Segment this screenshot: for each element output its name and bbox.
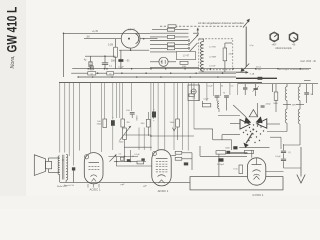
- wire IF1 mid join: [286, 100, 288, 109]
- paper shading left edge: [0, 0, 26, 209]
- svg-text:(2): (2): [288, 152, 291, 154]
- output tube UCL11 envelope: [84, 153, 103, 184]
- mains heavy line: [236, 77, 277, 79]
- svg-text:Nora,: Nora,: [10, 55, 16, 68]
- svg-text:2M: 2M: [127, 122, 130, 124]
- wire staircase h3: [222, 134, 240, 136]
- bus junction dots B: [97, 72, 99, 74]
- wafer switch wedge top-left black: [244, 117, 251, 124]
- wire transformer bottom left: [59, 175, 61, 183]
- cathode bus: [60, 181, 190, 183]
- wafer switch cap 220: [261, 105, 265, 107]
- wire mid h2 dn: [124, 146, 152, 148]
- antenna coil winding KW: [201, 42, 204, 52]
- tube V2 grid cap circle: [152, 152, 156, 156]
- wafer switch right wire: [267, 123, 280, 125]
- band switch row 2: [150, 32, 189, 34]
- wire indicator bottom stub: [130, 48, 132, 50]
- wire shelf y56: [85, 55, 116, 57]
- svg-text:AF/DC 1: AF/DC 1: [158, 189, 169, 193]
- junction right of indicator: [143, 38, 145, 40]
- wafer switch left wire: [230, 123, 240, 125]
- wire vertical drop 3: [104, 82, 106, 119]
- dial lamp box: [188, 85, 200, 101]
- wire IF2 mid join: [299, 100, 301, 109]
- tube V2 heater V: [159, 180, 165, 183]
- cap pair x227.4: [224, 95, 229, 97]
- band switch row 5: [150, 43, 189, 45]
- svg-text:2x0,1: 2x0,1: [256, 66, 262, 68]
- wire resistor bottom: [224, 61, 226, 72]
- tube V2 grids: [156, 161, 158, 163]
- loudspeaker coil box: [46, 161, 52, 168]
- wire vertical drop 12: [164, 82, 166, 150]
- wire vertical drop 14: [177, 82, 179, 119]
- IF tuning cap right: [304, 92, 309, 94]
- tube V2 cathode: [158, 175, 166, 177]
- transformer core lines: [62, 155, 64, 180]
- dashed aerial line: [160, 25, 243, 27]
- wire short x139: [138, 128, 140, 151]
- svg-text:L1 KW: L1 KW: [209, 47, 216, 49]
- svg-text:0,1μF: 0,1μF: [134, 154, 140, 156]
- wire left vertical 4: [73, 82, 75, 165]
- svg-text:2x50μF: 2x50μF: [217, 164, 225, 166]
- tuning knob left hexagon: [270, 32, 279, 42]
- row pill 3: [167, 43, 174, 46]
- wire horizontal below indicator: [119, 49, 149, 51]
- wire vertical drop 22: [229, 82, 231, 95]
- wire V3 top to switch: [251, 151, 253, 158]
- indicator tube target arc: [136, 34, 139, 44]
- switch contact small circle 3: [188, 47, 190, 49]
- potentiometer 50k diagonal: [123, 128, 127, 140]
- wire top horizontal to band switch: [64, 32, 151, 34]
- wire indicator right: [140, 38, 158, 40]
- svg-text:GW 410 L: GW 410 L: [4, 7, 20, 53]
- right of V2 wires: [171, 155, 176, 157]
- resistor below osc box: [180, 61, 188, 64]
- wire vertical drop 7: [122, 82, 124, 119]
- wafer switch lever: [246, 133, 252, 143]
- wire resistor 5000 bottom: [275, 100, 277, 112]
- band switch row 7: [150, 51, 189, 53]
- resistor in coil box: [223, 48, 227, 61]
- wire vertical drop 1: [90, 82, 92, 153]
- pill mid: [137, 161, 144, 164]
- wire branch x272: [272, 84, 274, 92]
- row pill 1: [167, 28, 174, 31]
- choke on bus A: [90, 65, 93, 67]
- switch contact small circle 2: [188, 44, 190, 46]
- antenna coil winding LW: [201, 61, 204, 71]
- tuning knob right pointer: [294, 37, 297, 40]
- trimmer arrow mid: [110, 156, 116, 162]
- bus line A y68.7: [72, 68, 311, 70]
- wire staircase h1: [194, 128, 213, 130]
- wafer switch contact dots: [247, 134, 248, 135]
- wire staircase h2: [213, 139, 232, 141]
- dark component on wire x73.6: [72, 167, 75, 170]
- wire drop continuation x122.7: [122, 127, 124, 130]
- dark cap right of pill: [226, 151, 230, 154]
- pill below switch: [245, 150, 254, 153]
- junction dot x150.9: [150, 135, 152, 137]
- wire vertical drop 18: [197, 82, 199, 101]
- svg-text:AC/DC 1: AC/DC 1: [89, 188, 100, 192]
- svg-text:μμF: μμF: [121, 184, 126, 186]
- dial lamp circle: [191, 89, 196, 94]
- ground arrow head: [297, 175, 305, 184]
- trimmer branch 2: [255, 84, 257, 88]
- wafer switch wedge top-right black: [256, 116, 263, 123]
- right of V2 pill 1: [175, 151, 182, 154]
- wire speaker top: [48, 158, 50, 161]
- wire arrow mains entry: [236, 71, 248, 73]
- tube V3 anode bar: [252, 164, 262, 166]
- wire top right stub: [304, 80, 311, 82]
- output transformer primary: [58, 156, 60, 175]
- wire resistor top: [224, 43, 226, 48]
- bus junction dots C: [92, 76, 94, 78]
- wire staircase v1: [193, 82, 195, 128]
- band switch row 4: [150, 40, 189, 42]
- wire speaker bottom: [48, 169, 50, 173]
- tube V1 pins: [87, 184, 89, 188]
- small box mid: [120, 157, 124, 160]
- bus line C y77: [78, 76, 236, 78]
- wire below coil box: [199, 71, 247, 73]
- wire cap stack: [283, 144, 285, 150]
- cap pair x217.9: [215, 95, 220, 97]
- band switch row 6: [150, 47, 189, 49]
- wire staircase v3: [231, 140, 233, 150]
- wire mid v3: [129, 150, 131, 162]
- dark cap mid: [127, 159, 131, 162]
- wire mid v1: [116, 157, 118, 167]
- cap stack right 1: [281, 150, 286, 152]
- power unit box: [190, 177, 283, 190]
- svg-text:5000: 5000: [111, 60, 117, 62]
- wire vertical drop 11: [157, 82, 159, 150]
- switch wiper diagonal 1: [190, 36, 198, 45]
- wire pot right segment: [151, 135, 194, 137]
- svg-text:Anschl. 50: Anschl. 50: [64, 184, 75, 187]
- svg-text:0,1μF: 0,1μF: [256, 69, 262, 71]
- capacitor row3: [130, 112, 135, 114]
- wire power h: [200, 155, 247, 157]
- wire vertical drop 5: [115, 82, 117, 118]
- wire left vertical 5: [79, 82, 81, 150]
- junction top-left: [63, 33, 65, 35]
- tuning knob right circle: [290, 33, 298, 41]
- junction below indicator: [130, 49, 132, 51]
- tuning knob left circle: [270, 33, 278, 41]
- wafer switch hub: [252, 129, 254, 131]
- rectifier tube UY11 envelope: [247, 158, 265, 185]
- resistor 0,1M vertical: [115, 39, 117, 48]
- antenna coil winding MW: [201, 51, 204, 61]
- wire vertical drop 13: [173, 82, 175, 150]
- wire below switch: [239, 147, 269, 149]
- svg-text:L3 LW: L3 LW: [209, 66, 216, 68]
- bus line B y73.2: [71, 72, 236, 74]
- pill power: [216, 151, 226, 154]
- wire mid h2: [114, 161, 146, 163]
- indicator tube cathode dot: [128, 38, 130, 40]
- wire vertical drop 2: [101, 82, 103, 152]
- wire left vertical 1: [59, 82, 61, 152]
- wire switch top connect: [218, 115, 240, 117]
- oscillator tube electrodes: [161, 60, 163, 64]
- IF2 primary winding: [299, 84, 301, 87]
- svg-text:0,1μF: 0,1μF: [207, 86, 213, 88]
- loudspeaker cone: [34, 155, 45, 176]
- mixer tube UCH11 envelope: [152, 150, 171, 186]
- junction dots mid: [116, 161, 117, 162]
- wire x312 drop: [312, 84, 314, 95]
- wire vertical drop 21: [219, 82, 221, 96]
- tuning knob left pointer: [274, 34, 277, 37]
- capacitor dark row slot2: [152, 112, 156, 118]
- wire mid h1: [108, 156, 138, 158]
- tuning knob right hexagon: [289, 32, 298, 42]
- switch wiper diagonal 2: [190, 43, 198, 52]
- antenna lead arrow NE: [243, 21, 249, 28]
- resistor R row1: [103, 119, 107, 128]
- wire power h2: [230, 151, 247, 153]
- switch contact small circle 1: [188, 40, 190, 42]
- resistor box row2: [121, 119, 125, 127]
- svg-text:0,1M: 0,1M: [108, 44, 113, 46]
- tube V3 heater: [254, 176, 260, 179]
- capacitor block mid: [104, 56, 106, 62]
- dark cap mid 2: [141, 158, 144, 160]
- tube V1 grid dashes 2: [89, 169, 91, 171]
- tube V3 cathode: [253, 170, 261, 172]
- tube V1 grid dashes: [89, 166, 91, 168]
- wire mid v2: [124, 140, 126, 162]
- svg-text:Abstimmknöpfe: Abstimmknöpfe: [275, 47, 292, 50]
- wire osc right: [168, 61, 176, 63]
- svg-text:GY/DC 1: GY/DC 1: [252, 193, 264, 197]
- fuse on mains line: [258, 77, 263, 80]
- power box top partial: [219, 152, 248, 154]
- dark blob 5000: [233, 146, 237, 149]
- wire left vertical 2: [64, 82, 66, 152]
- wire staircase v4: [221, 135, 223, 140]
- aerial line pill: [168, 25, 176, 28]
- wire bottom right h: [266, 171, 284, 173]
- wire vertical drop 16: [187, 82, 189, 150]
- wire vertical drop 15: [182, 82, 184, 150]
- antenna lead vertical: [245, 27, 247, 67]
- svg-text:6800: 6800: [137, 115, 139, 121]
- osc grid box: [177, 52, 196, 60]
- wire vertical drop 6: [119, 82, 121, 118]
- svg-text:0,5μ: 0,5μ: [250, 45, 254, 47]
- bus junction dots: [87, 68, 89, 70]
- electrolytic coil choke dark: [90, 56, 92, 61]
- capacitor 5000 dark: [118, 59, 123, 62]
- svg-text:AF 41: AF 41: [128, 28, 136, 32]
- svg-text:0,1μF: 0,1μF: [203, 99, 209, 101]
- IF2 secondary winding: [298, 109, 300, 124]
- wire transformer bottom right: [65, 180, 67, 182]
- svg-text:L2 MW: L2 MW: [209, 57, 217, 59]
- right of V2 dark cap: [184, 162, 188, 165]
- tube V1 anode line: [89, 162, 100, 164]
- wire vertical drop 23: [237, 82, 239, 95]
- power box inner line: [218, 153, 220, 176]
- wire switch feed diag: [233, 105, 246, 117]
- wire staircase v2: [212, 129, 214, 140]
- wire osc bottom: [150, 67, 199, 69]
- wire to indicator tube anode: [84, 38, 121, 40]
- trimmer branch 1: [244, 84, 246, 88]
- svg-text:0,1μF: 0,1μF: [275, 156, 281, 158]
- wire IF1 bottom: [286, 123, 288, 132]
- wire mid h3: [116, 165, 152, 167]
- wafer switch right wire 2: [270, 136, 281, 138]
- row pill 2: [167, 35, 174, 38]
- coil unit dashed box: [199, 39, 233, 70]
- wire grid bus from AVC: [63, 33, 65, 77]
- chassis box top heavy: [59, 81, 262, 83]
- wire left vertical 3: [68, 82, 70, 156]
- wire osc left: [150, 61, 159, 63]
- resistor R row5 600: [147, 112, 149, 119]
- tube V1 cathode: [91, 175, 97, 177]
- svg-text:1M: 1M: [86, 37, 89, 39]
- svg-text:+40°: +40°: [271, 43, 276, 46]
- capacitor dark row: [111, 120, 115, 126]
- bus line D right thin: [238, 83, 318, 85]
- band switch row 1: [152, 29, 189, 31]
- wafer switch triangle W hollow: [240, 120, 250, 130]
- wire drop continuation x112.8: [112, 126, 114, 150]
- svg-text:mit der eingebauten Antenne ve: mit der eingebauten Antenne verbunden: [198, 21, 245, 25]
- tube V1 heater V: [92, 179, 97, 182]
- pill component x206: [202, 101, 204, 104]
- V mark on x174: [172, 128, 175, 131]
- wire rows right join: [193, 32, 199, 34]
- junction bus A x104: [104, 68, 106, 70]
- wire vertical drop 20: [213, 82, 215, 96]
- tube V2 anode line: [156, 158, 168, 160]
- wire to ground: [284, 167, 302, 169]
- row pill 4: [167, 47, 174, 50]
- svg-text:Ausf. 2013 - 40: Ausf. 2013 - 40: [300, 60, 316, 63]
- svg-text:+1,4V: +1,4V: [92, 30, 99, 33]
- wire vertical drop 4: [112, 82, 114, 119]
- resistor 5000 right: [274, 92, 278, 100]
- junction shelf: [104, 55, 106, 57]
- svg-text:220Ω: 220Ω: [265, 103, 270, 106]
- oscillator tube circle: [159, 57, 168, 66]
- wafer switch triangle N hollow: [249, 110, 257, 117]
- paper shading bottom: [0, 196, 320, 209]
- wire vertical drop 19: [206, 82, 208, 101]
- svg-text:mit eingeb. Entstörkondensator: mit eingeb. Entstörkondensator: [279, 68, 310, 71]
- wafer switch triangle E hollow: [257, 119, 267, 128]
- resistor R row6 5000: [176, 119, 180, 127]
- wire vertical drop 8: [130, 82, 132, 111]
- wire cap branch vertical: [120, 50, 122, 68]
- winding x217.9: [218, 101, 219, 109]
- wire vertical drop 9: [150, 82, 152, 150]
- resistor power vert: [239, 165, 243, 174]
- tuning indicator tube AF41 envelope: [121, 29, 140, 48]
- ground arrow stem: [300, 147, 302, 177]
- output transformer secondary: [66, 154, 68, 180]
- IF1 primary winding: [286, 84, 288, 87]
- wire pot wiper to right: [125, 134, 151, 136]
- component box on bus B 2: [107, 72, 114, 75]
- electrolytic dark cap power: [218, 158, 223, 161]
- junction bus C start: [77, 76, 79, 78]
- wire short x144.2: [143, 128, 145, 151]
- wire IF2 bottom: [299, 124, 301, 145]
- band switch row 3: [150, 36, 189, 38]
- component box on bus B 1: [88, 72, 96, 75]
- cap stack right 2: [281, 158, 286, 160]
- right of V2 pill 2: [175, 157, 182, 160]
- coil top stub: [203, 39, 205, 42]
- svg-text:0,1A: 0,1A: [250, 73, 255, 76]
- antenna diag arrow bottom: [243, 64, 250, 71]
- wire vertical drop 10: [153, 82, 155, 119]
- svg-text:0,1μF: 0,1μF: [118, 66, 124, 68]
- IF1 secondary winding: [285, 109, 287, 123]
- svg-text:LY 47: LY 47: [183, 56, 190, 58]
- wire vertical drop 17: [191, 82, 193, 93]
- wafer switch feed vertical: [257, 103, 259, 116]
- tube V3 anode stem: [256, 158, 258, 165]
- tube V1 grid cap circle: [85, 155, 89, 159]
